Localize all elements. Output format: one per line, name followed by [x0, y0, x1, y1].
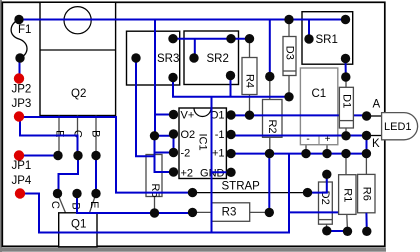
IC1 pin stubs right — [226, 114, 231, 116]
wire F1 rail — [19, 19, 346, 21]
svg-text:+1: +1 — [212, 148, 225, 160]
pad R4 bottom — [245, 111, 254, 120]
wire JP1 to Q2 pin E — [19, 155, 58, 157]
resistor R1 — [339, 154, 356, 232]
relay SR1 — [302, 12, 353, 64]
wire R6 bottom lead — [365, 213, 367, 232]
wire Q1 B to R5 to R3 — [77, 194, 193, 214]
svg-text:R2: R2 — [266, 119, 278, 133]
wire D2 top to STRAP right — [308, 174, 327, 192]
svg-text:STRAP: STRAP — [222, 181, 261, 193]
wire Q2 C to Q1 C — [59, 156, 79, 194]
wire R2 bottom to R3 right — [268, 154, 270, 213]
svg-text:K: K — [372, 138, 380, 150]
pad IC1 V+ — [169, 110, 178, 119]
svg-text:A: A — [373, 99, 381, 111]
wire SR2 lower pad branch — [230, 76, 232, 97]
pad JP1 — [14, 150, 24, 160]
pad LED1 K — [362, 131, 371, 140]
pad SR1 top right — [341, 15, 350, 24]
wire GND branch — [212, 172, 232, 232]
svg-text:Q1: Q1 — [71, 219, 86, 231]
pad R6 top — [362, 149, 371, 158]
Q2 pin lead B — [95, 116, 97, 156]
pad IC1 O2 — [169, 129, 178, 138]
svg-text:JP3: JP3 — [12, 98, 32, 110]
pad R2 bottom — [265, 149, 274, 158]
pad SR3 left — [131, 53, 140, 62]
diode D2 — [319, 174, 333, 231]
capacitor C1 — [300, 68, 337, 154]
wire K to R6 top — [366, 136, 368, 154]
wire D2 bottom to R1 bottom — [327, 230, 348, 232]
wire JP3 to Q2 pin C — [20, 117, 78, 156]
op-amp IC1 — [174, 108, 232, 180]
pad LED1 A — [362, 111, 371, 120]
pad F1 bottom — [15, 53, 24, 62]
pad SR1 left — [304, 34, 313, 43]
pad R2 top — [265, 72, 274, 81]
svg-text:C: C — [49, 201, 61, 209]
pad R6 bottom — [362, 227, 371, 236]
svg-text:R5: R5 — [149, 183, 161, 197]
Q2 pin lead E — [58, 116, 60, 156]
Q2 pin lead C — [77, 116, 79, 156]
pad Q2 E — [53, 151, 62, 160]
svg-text:R6: R6 — [360, 187, 372, 201]
workspace edge left — [0, 0, 2, 252]
svg-text:D3: D3 — [284, 46, 296, 60]
svg-text:B: B — [70, 202, 82, 209]
IC1 pin stubs left — [174, 114, 180, 116]
pad STRAP right — [303, 188, 312, 197]
pad C1 minus — [301, 149, 310, 158]
LED1 leads — [367, 115, 382, 117]
relay SR2 — [184, 31, 239, 85]
wire +1 rail to C1 R1 R6 — [231, 153, 366, 155]
LED1 — [382, 113, 418, 140]
pad Q1 B — [72, 189, 81, 198]
wire -2 branch — [155, 152, 174, 154]
resistor R3 — [193, 203, 270, 222]
workspace edge bottom — [0, 248, 386, 252]
svg-text:+2: +2 — [181, 168, 194, 180]
wire SR3 left pad down — [136, 58, 155, 156]
svg-text:LED1: LED1 — [384, 121, 412, 133]
wire SR1 left pad to rail — [308, 20, 310, 40]
pad R3 left — [188, 208, 197, 217]
wire SR1 to D1 — [345, 59, 347, 78]
pad JP4 — [15, 188, 25, 198]
wire R5 top to O2 — [155, 135, 174, 137]
svg-text:JP2: JP2 — [12, 84, 32, 96]
pad IC1 +1 — [226, 149, 235, 158]
wire Q2 B to Q1 E — [95, 156, 97, 194]
pad D2 top — [322, 170, 331, 179]
pad D3 top — [284, 15, 293, 24]
pad Q1 C — [53, 189, 62, 198]
pad SR2 bottom right — [226, 71, 235, 80]
svg-text:D1: D1 — [341, 94, 353, 108]
svg-text:Q2: Q2 — [71, 88, 86, 100]
pad F1 top — [14, 15, 23, 24]
wire rail to V+ and R5 — [154, 20, 156, 136]
pad R3 right — [265, 208, 274, 217]
pad SR3 top right — [168, 34, 177, 43]
pad SR3 bottom right — [168, 73, 177, 82]
pad IC1 GND — [226, 168, 235, 177]
wire R2 top to rail — [269, 20, 271, 77]
pad JP2 — [14, 73, 24, 83]
resistor R5 — [146, 136, 162, 213]
pad IC1 O1 — [226, 110, 235, 119]
pad D1 bottom — [341, 131, 350, 140]
pad JP3 — [14, 111, 24, 121]
wire O2 to -2 — [173, 134, 175, 153]
wire JP4 bottom run — [20, 154, 289, 233]
wire -1 to D1 to K — [231, 135, 367, 137]
wire SR3 to D3 — [173, 78, 289, 97]
wire link STRAP — [193, 181, 308, 193]
wire branch to R6 bottom — [289, 211, 339, 213]
pad R1 top — [341, 149, 350, 158]
pad Q2 B — [91, 151, 100, 160]
pad D2 bottom — [322, 226, 331, 235]
pad SR1 bottom right — [341, 54, 350, 63]
resistor R2 — [263, 77, 283, 154]
pad IC1 -1 — [226, 130, 235, 139]
pad IC1 +2 — [169, 167, 178, 176]
transistor Q2 — [40, 2, 116, 115]
svg-text:B: B — [90, 130, 102, 137]
svg-text:R3: R3 — [222, 207, 237, 219]
svg-text:-1: -1 — [215, 129, 225, 141]
svg-text:JP1: JP1 — [12, 160, 32, 172]
pad R5 top — [150, 131, 159, 140]
relay SR3 — [127, 31, 180, 85]
svg-text:SR1: SR1 — [316, 34, 338, 46]
svg-text:R1: R1 — [341, 188, 353, 202]
svg-text:R4: R4 — [243, 74, 255, 88]
fuse F1 — [11, 20, 31, 59]
svg-text:-2: -2 — [181, 148, 191, 160]
svg-text:O2: O2 — [181, 129, 196, 141]
transistor Q1 — [58, 194, 98, 247]
pad IC1 -2 — [169, 148, 178, 157]
svg-text:SR3: SR3 — [157, 53, 179, 65]
pad R5 bottom — [150, 208, 159, 217]
resistor R6 — [358, 154, 375, 213]
wire D3 net vertical through IC1 — [211, 97, 213, 173]
svg-text:F1: F1 — [18, 24, 31, 36]
svg-text:V+: V+ — [181, 110, 195, 122]
svg-text:SR2: SR2 — [207, 53, 229, 65]
pad D3 bottom — [284, 92, 293, 101]
svg-text:JP4: JP4 — [12, 175, 32, 187]
pad R4 top — [245, 34, 254, 43]
pad Q2 C — [73, 151, 82, 160]
diode D1 — [339, 77, 353, 136]
pad SR2 left — [189, 53, 198, 62]
pad D1 top — [341, 72, 350, 81]
diode D3 — [283, 20, 296, 98]
wire O1 to A — [231, 114, 367, 117]
pad SR2 top right — [226, 34, 235, 43]
wire F1 to JP2 — [19, 58, 21, 79]
svg-text:C1: C1 — [312, 88, 327, 100]
pad Q1 E — [91, 189, 100, 198]
svg-text:E: E — [88, 201, 100, 208]
pad STRAP left — [188, 188, 197, 197]
wire SR3 to SR2 to R4 — [173, 38, 250, 40]
wire SR2 left pad branch — [194, 39, 196, 58]
svg-text:IC1: IC1 — [197, 133, 209, 150]
pad R1 bottom — [343, 227, 352, 236]
pad C1 plus — [322, 149, 331, 158]
resistor R4 — [242, 39, 257, 115]
wire JP3 to STRAP left — [19, 117, 193, 193]
